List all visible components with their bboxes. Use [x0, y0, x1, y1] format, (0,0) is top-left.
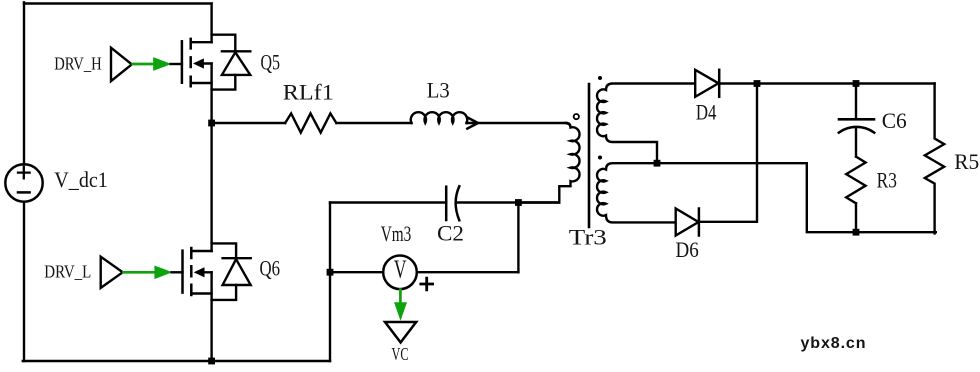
capacitor C6 top plate — [839, 118, 874, 121]
svg-text:C6: C6 — [882, 108, 907, 133]
capacitor C6 curved plate — [839, 127, 874, 133]
diode Q6 body cathode bar — [223, 257, 251, 259]
transformer Tr3 primary winding — [518, 123, 579, 203]
node A junction dot — [208, 120, 215, 127]
svg-text:ybx8.cn: ybx8.cn — [801, 335, 867, 352]
transistor Q6 channel — [190, 248, 193, 295]
wire Q5 drain — [210, 4, 212, 43]
svg-text:D4: D4 — [696, 100, 717, 125]
diode Q5 body top lead — [212, 35, 236, 51]
svg-text:DRV_L: DRV_L — [44, 262, 91, 282]
junction dot bottom rail — [208, 358, 215, 365]
svg-text:Q6: Q6 — [260, 256, 281, 281]
arrow L3 head — [467, 117, 478, 128]
capacitor C6 bottom lead — [855, 128, 857, 157]
voltmeter Vm3 — [383, 255, 417, 289]
wire DRV_H gate lead — [171, 63, 182, 65]
transformer Tr3 primary polarity circle — [574, 114, 579, 119]
svg-text:C2: C2 — [437, 220, 464, 245]
svg-text:R3: R3 — [877, 167, 897, 192]
diode Q5 body anode lead — [212, 75, 236, 90]
svg-text:V: V — [394, 255, 407, 284]
wire DRV_H green — [133, 63, 156, 66]
arrow Vm3 green — [399, 290, 402, 304]
diode D6 triangle — [676, 209, 699, 236]
svg-text:DRV_H: DRV_H — [54, 54, 102, 74]
wire D4 to R5 top rail — [719, 82, 934, 84]
wire top rail — [24, 2, 212, 4]
svg-text:L3: L3 — [427, 78, 450, 103]
wire Q5 source — [210, 64, 212, 125]
svg-text:Q5: Q5 — [261, 50, 281, 75]
transformer Tr3 secondary bottom dot — [598, 156, 602, 160]
wire bottom rail — [23, 360, 330, 362]
wire C2 left — [330, 201, 446, 203]
diode D4 cathode bar — [718, 70, 721, 97]
buffer DRV_L triangle — [101, 257, 123, 288]
diode D4 triangle — [695, 70, 718, 97]
resistor RLf1 — [285, 113, 336, 132]
ground VC triangle — [385, 322, 416, 342]
junction dot C6 top node — [853, 80, 860, 87]
transistor Q5 channel — [189, 39, 192, 86]
junction dot D4 cathode node — [754, 80, 761, 87]
svg-text:RLf1: RLf1 — [283, 80, 334, 105]
transistor Q5 gate bar — [181, 41, 184, 82]
wire C2 right — [456, 201, 559, 203]
wire Q6 drain — [210, 123, 212, 251]
diode Q6 body anode lead — [212, 285, 237, 300]
arrow DRV_H green head — [153, 57, 171, 71]
junction dot C2 node — [515, 199, 522, 206]
wire D6 cathode to D4 node — [699, 84, 757, 222]
transistor Q6 gate bar — [181, 251, 184, 293]
wire R3 bottom lead — [855, 203, 857, 232]
junction dot output bottom node — [853, 229, 860, 236]
wire DRV_L green — [124, 271, 158, 274]
transformer Tr3 secondary bottom winding — [597, 163, 676, 222]
voltage source V_dc1 — [5, 164, 42, 201]
wire bottom left vertical — [329, 203, 331, 362]
transistor Q5 stubs — [191, 42, 212, 83]
arrow Vm3 green head — [394, 302, 407, 321]
arrow DRV_L green head — [154, 266, 172, 280]
wire DRV_L gate lead — [172, 271, 183, 273]
transformer Tr3 core — [588, 84, 591, 227]
wire Vm3 left — [330, 271, 384, 273]
wire Vm3 right — [416, 271, 518, 273]
wire L3 to transformer — [467, 122, 567, 124]
wire RLf1 to L3 — [336, 122, 411, 124]
label Vm3 plus — [421, 278, 433, 290]
junction dot Vm3 node — [327, 269, 334, 276]
resistor R3 — [846, 157, 865, 204]
wire left rail lower — [23, 202, 25, 362]
resistor R5 with leads — [925, 84, 944, 234]
wire C2 node down — [517, 203, 519, 273]
transformer Tr3 secondary top dot — [598, 76, 602, 80]
diode Q5 body triangle — [222, 52, 250, 75]
capacitor C6 top lead — [855, 84, 857, 119]
diode Q6 body top lead — [212, 243, 237, 257]
wire node A to RLf1 — [212, 122, 286, 124]
svg-text:Tr3: Tr3 — [569, 225, 607, 250]
transformer Tr3 secondary top winding — [597, 84, 695, 164]
diode D6 cathode bar — [698, 209, 701, 236]
transistor Q5 arrow — [194, 59, 203, 68]
junction dot center tap — [654, 160, 661, 167]
svg-text:Vm3: Vm3 — [381, 221, 412, 246]
diode Q5 body cathode bar — [222, 50, 250, 52]
capacitor C2 — [446, 186, 459, 220]
svg-text:D6: D6 — [676, 237, 699, 262]
transistor Q6 stubs — [191, 251, 211, 294]
svg-text:R5: R5 — [954, 149, 979, 174]
diode Q6 body triangle — [223, 259, 251, 285]
wire center tap to output — [657, 163, 936, 232]
wire Q6 source — [210, 272, 212, 361]
wire left rail upper — [23, 2, 25, 164]
buffer DRV_H triangle — [111, 48, 132, 81]
inductor L3 — [411, 112, 467, 123]
svg-text:VC: VC — [392, 344, 409, 364]
svg-text:V_dc1: V_dc1 — [54, 167, 108, 192]
transistor Q6 arrow — [195, 268, 204, 277]
